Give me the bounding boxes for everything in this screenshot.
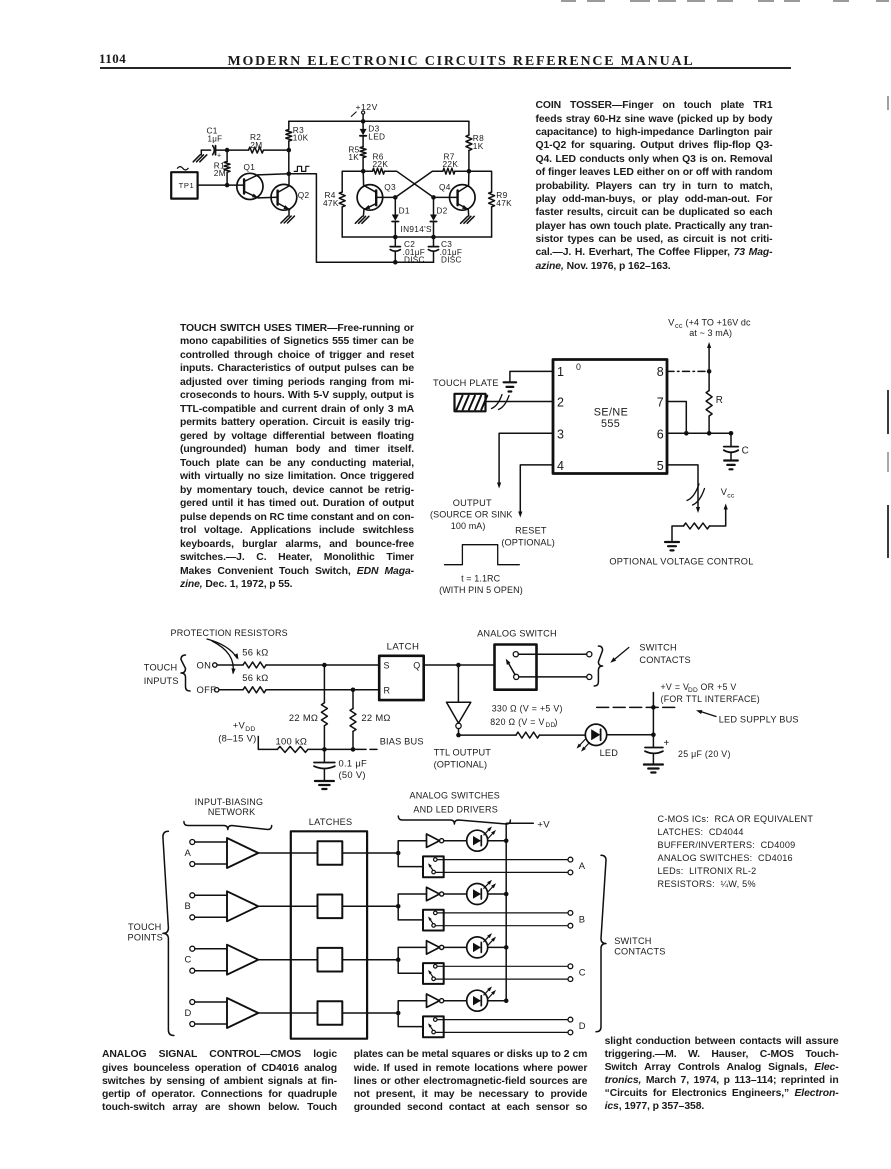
svg-text:B: B (579, 913, 586, 924)
wire to inverter B (398, 894, 426, 906)
wire to inverter A (398, 841, 426, 853)
label t=1.1RC (439, 573, 523, 595)
pin 4 (557, 459, 564, 473)
transistor Q3 (357, 171, 396, 216)
transistor Q4 (439, 171, 475, 216)
label +VDD supply (218, 719, 256, 743)
resistor R2 2M (227, 132, 289, 153)
label LED supply bus (696, 710, 799, 724)
svg-text:ANALOG SWITCH: ANALOG SWITCH (477, 629, 557, 639)
label Vcc supply (668, 316, 751, 338)
wire switch contact bottom D (435, 1030, 572, 1035)
svg-text:C: C (579, 967, 586, 978)
node R2/R3 junction (287, 148, 292, 174)
svg-text:0.1 μF: 0.1 μF (339, 757, 368, 768)
pin 8 (657, 365, 664, 379)
label analog switches and led drivers (410, 790, 501, 814)
svg-text:INPUT-BIASING: INPUT-BIASING (195, 797, 264, 807)
+12V supply terminal (351, 102, 378, 121)
label reset (501, 526, 555, 548)
buffer D (227, 998, 258, 1028)
label +V supply (661, 682, 761, 704)
capacitor 0.1uF (314, 749, 367, 780)
svg-text:56 kΩ: 56 kΩ (242, 672, 268, 683)
ground at pin 1 (504, 382, 516, 391)
resistor R3 10K (286, 121, 309, 150)
svg-text:R: R (384, 685, 391, 695)
svg-text:cc: cc (727, 493, 735, 500)
touch plate TP1 (171, 167, 197, 199)
resistor 56k (ON) (217, 646, 379, 668)
capacitor 25uF (645, 735, 731, 763)
wire LED supply bus (dashed) (597, 705, 676, 710)
touch on/off latch schematic (0, 0, 1, 1)
node C1/R1/R2 junction (225, 148, 230, 153)
wire to analog switch A (398, 853, 423, 867)
wire latch output A (342, 851, 400, 856)
wire LED to +V rail A (488, 838, 509, 843)
coin tosser schematic (0, 0, 1, 1)
svg-text:OUTPUT: OUTPUT (453, 498, 492, 508)
touch input pair D (185, 1000, 228, 1027)
label IN914S (401, 224, 433, 234)
wire pin 7 (667, 402, 689, 436)
resistor R1 2M (214, 150, 230, 185)
resistor R7 22K (443, 151, 469, 174)
svg-text:A: A (579, 860, 586, 871)
svg-text:8: 8 (657, 365, 664, 379)
wire Q3 base (378, 195, 398, 200)
wire buffer to latch C (258, 959, 317, 961)
transistor Q2 (271, 174, 309, 216)
svg-text:SE/NE: SE/NE (594, 407, 628, 419)
svg-text:POINTS: POINTS (128, 933, 163, 943)
svg-text:2M: 2M (250, 140, 262, 150)
node OFF junction (351, 688, 356, 693)
inverter TTL output (447, 665, 471, 735)
resistor 56k (OFF) (219, 672, 379, 693)
brace analog switches (398, 816, 510, 824)
square wave symbol (294, 166, 309, 171)
svg-text:(WITH PIN 5 OPEN): (WITH PIN 5 OPEN) (439, 585, 523, 595)
wire switch contact top A (437, 857, 573, 862)
label touch inputs (144, 663, 179, 686)
svg-text:TOUCH PLATE: TOUCH PLATE (433, 378, 499, 388)
inverter D (427, 994, 444, 1007)
wire to inverter C (398, 947, 426, 959)
wire top supply rail (289, 119, 469, 124)
svg-text:C: C (742, 445, 749, 456)
wire bottom rail (342, 235, 491, 240)
ground at Q3 emitter (355, 216, 369, 223)
svg-text:47K: 47K (323, 198, 339, 208)
555 timer schematic (0, 0, 1, 1)
label optional voltage control (609, 556, 753, 566)
svg-text:7: 7 (657, 396, 664, 410)
touch input pair B (185, 893, 228, 920)
svg-text:DISC: DISC (441, 256, 462, 265)
resistor R9 47K (489, 190, 513, 237)
svg-text:INPUTS: INPUTS (144, 676, 179, 686)
wire switch contact bottom (519, 674, 592, 679)
svg-text:LATCH: LATCH (387, 641, 420, 652)
diode D1 (392, 197, 410, 237)
svg-text:D2: D2 (436, 205, 447, 215)
svg-text:555: 555 (601, 418, 620, 430)
wire to analog switch C (398, 960, 423, 974)
svg-text:+V: +V (537, 819, 550, 830)
wire pin 5 (667, 465, 700, 513)
label TTL output (434, 747, 492, 769)
node TTL junction (456, 733, 461, 738)
svg-text:D: D (579, 1020, 586, 1031)
svg-text:BIAS BUS: BIAS BUS (380, 736, 424, 746)
wire switch contact top D (437, 1017, 573, 1022)
break symbol on pin 5 wire (687, 484, 705, 505)
node ON input terminal (197, 659, 218, 670)
node bias bus junctions (322, 747, 355, 752)
ground at 25uF (644, 765, 663, 773)
svg-text:2: 2 (557, 396, 564, 410)
svg-text:OPTIONAL VOLTAGE CONTROL: OPTIONAL VOLTAGE CONTROL (609, 556, 753, 566)
LED C (467, 933, 496, 958)
svg-text:+V = V: +V = V (661, 682, 690, 692)
svg-text:5: 5 (657, 459, 664, 473)
svg-text:AND LED DRIVERS: AND LED DRIVERS (413, 805, 498, 815)
pin 6 (657, 427, 664, 441)
wire switch contact top (518, 652, 592, 657)
svg-text:ON: ON (197, 659, 212, 670)
ground at Q2 emitter (281, 216, 295, 223)
pin 1 (557, 365, 564, 379)
resistor R8 1K (466, 121, 484, 171)
node Q3 collector junction (361, 169, 366, 174)
svg-text:S: S (384, 661, 390, 671)
svg-text:DISC: DISC (404, 256, 425, 265)
touch input pair A (185, 840, 228, 867)
pin 3 (557, 427, 564, 441)
pin 2 (557, 396, 564, 410)
wire latch output C (342, 957, 400, 962)
node output D (579, 1020, 586, 1031)
node output junction (287, 172, 292, 177)
wire Q1 emitter to Q2 base (258, 196, 277, 199)
resistor R6 22K (363, 151, 388, 174)
svg-text:0: 0 (576, 362, 581, 372)
svg-text:CONTACTS: CONTACTS (639, 655, 690, 665)
latch cell A (318, 841, 343, 865)
svg-text:at ~ 3 mA): at ~ 3 mA) (689, 328, 732, 338)
capacitor C1 1uF (201, 126, 227, 160)
svg-text:A: A (185, 847, 192, 858)
brace switch contacts (right) (596, 855, 606, 1031)
wire buffer to latch A (258, 852, 317, 854)
svg-text:4: 4 (557, 459, 564, 473)
node output B (579, 913, 586, 924)
resistor 330/820 (459, 704, 586, 739)
brace input-biasing network (184, 822, 272, 830)
svg-text:+12V: +12V (356, 102, 378, 112)
svg-text:LED SUPPLY BUS: LED SUPPLY BUS (719, 714, 799, 724)
wire R7 to Q3 base (cross-coupling) (395, 171, 443, 197)
svg-text:2M: 2M (214, 168, 226, 178)
wire pin 6 (667, 431, 733, 436)
svg-text:t = 1.1RC: t = 1.1RC (461, 573, 501, 583)
Vcc arrow (707, 342, 711, 371)
diode D3 LED (360, 121, 386, 146)
resistor R5 1K (348, 144, 366, 171)
wire pin 3 to output (497, 433, 553, 488)
analog switch U3 (495, 645, 537, 690)
svg-text:D: D (185, 1007, 192, 1018)
wire LED to supply junction (607, 733, 656, 738)
label analog switch (477, 629, 557, 639)
analog switch C (423, 963, 444, 984)
svg-text:Q1: Q1 (244, 162, 256, 172)
resistor R (706, 371, 723, 433)
svg-text:+: + (217, 153, 221, 160)
label switch contacts (610, 643, 691, 666)
latch U2 (379, 641, 424, 700)
latch cell D (318, 1001, 343, 1025)
LED A (467, 826, 496, 851)
svg-text:+V: +V (233, 719, 246, 730)
buffer C (227, 945, 258, 975)
brace switch contacts (594, 646, 602, 686)
svg-text:LATCHES: LATCHES (309, 817, 353, 827)
svg-text:3: 3 (557, 427, 564, 441)
svg-text:22K: 22K (373, 159, 389, 169)
transistor Q1 (237, 162, 263, 199)
latch cell C (318, 948, 343, 972)
svg-text:LED: LED (600, 748, 619, 758)
ground at potentiometer (665, 542, 679, 550)
latch cell B (318, 895, 343, 919)
svg-text:(OPTIONAL): (OPTIONAL) (434, 759, 488, 769)
analog switch B (423, 910, 444, 931)
resistor 100k (258, 736, 358, 753)
resistor 22M (OFF side) (350, 690, 391, 750)
svg-text:TP1: TP1 (179, 181, 195, 190)
svg-text:cc: cc (675, 321, 683, 330)
svg-text:R: R (716, 395, 723, 406)
svg-text:TOUCH: TOUCH (128, 922, 162, 932)
svg-text:(OPTIONAL): (OPTIONAL) (501, 538, 555, 548)
svg-text:OR +5 V: OR +5 V (701, 682, 737, 692)
analog switch A (423, 856, 444, 877)
op-amp U1 SE/NE 555 (553, 360, 667, 474)
wire Q4 base (431, 195, 456, 200)
wire TP1 to Q1 base (198, 183, 244, 188)
svg-text:+: + (664, 738, 670, 749)
arrow to resistor 2 (212, 641, 236, 675)
arrow to resistor 1 (207, 639, 239, 660)
wire inverter to LED B (444, 893, 467, 895)
wire inverter to LED D (444, 1000, 467, 1002)
brace touch points (163, 831, 174, 1035)
resistor 22M (ON side) (289, 665, 328, 749)
svg-text:TTL OUTPUT: TTL OUTPUT (434, 747, 492, 757)
wire inverter to LED C (444, 946, 467, 948)
svg-text:(FOR TTL INTERFACE): (FOR TTL INTERFACE) (661, 694, 761, 704)
svg-text:22 MΩ: 22 MΩ (289, 712, 318, 723)
label touch points (128, 922, 163, 943)
buffer B (227, 891, 258, 921)
svg-text:(8–15 V): (8–15 V) (218, 733, 256, 744)
wire latch output B (342, 904, 400, 909)
node output C (579, 967, 586, 978)
svg-text:1K: 1K (348, 152, 359, 162)
wire Q1 collector to output node (258, 174, 289, 175)
svg-text:Q3: Q3 (384, 182, 396, 192)
brace touch inputs (181, 655, 190, 691)
wire to inverter D (398, 1001, 426, 1013)
svg-text:SWITCH: SWITCH (614, 936, 651, 946)
svg-text:D1: D1 (399, 205, 410, 215)
wire R6 to Q4 base (cross-coupling) (385, 171, 434, 197)
svg-text:TOUCH: TOUCH (144, 663, 178, 673)
svg-text:6: 6 (657, 427, 664, 441)
svg-text:100 mA): 100 mA) (451, 521, 486, 531)
latches box (291, 831, 367, 1038)
wire switch contact bottom B (435, 923, 572, 928)
node ON junction (322, 663, 327, 668)
wire latch Q output (424, 663, 495, 668)
svg-text:10K: 10K (293, 133, 309, 143)
wire bias bus (dashed) (358, 736, 424, 749)
wire pin 8 (dash-dot) (667, 369, 711, 374)
svg-text:1μF: 1μF (208, 135, 223, 144)
LED B (467, 880, 496, 905)
label switch contacts (right) (614, 936, 665, 957)
svg-text:(50 V): (50 V) (339, 769, 366, 780)
wire output to bottom rail (289, 174, 434, 262)
svg-text:22K: 22K (443, 159, 459, 169)
svg-text:C: C (185, 954, 192, 965)
svg-text:47K: 47K (496, 198, 512, 208)
ground at C1 (193, 150, 207, 162)
inverter A (427, 834, 444, 847)
wire touch plate to pin 2 (486, 401, 554, 403)
svg-text:ANALOG SWITCHES: ANALOG SWITCHES (410, 790, 501, 800)
wire switch contact bottom C (435, 977, 572, 982)
svg-text:B: B (185, 900, 192, 911)
svg-text:LED: LED (368, 132, 385, 142)
ground at Q4 emitter (461, 216, 475, 223)
wire LED to +V rail B (488, 892, 509, 897)
svg-text:SWITCH: SWITCH (639, 643, 676, 653)
capacitor C2 .01uF DISC (390, 237, 425, 265)
ground at 0.1uF (315, 781, 334, 789)
label output (430, 498, 513, 531)
wire to analog switch B (398, 906, 423, 920)
wire LED to +V rail D (488, 998, 509, 1003)
ground at C (724, 461, 738, 470)
label latches (309, 817, 353, 827)
label touch plate (433, 378, 499, 388)
node OFF input terminal (197, 684, 219, 695)
wire buffer to latch B (258, 905, 317, 907)
svg-text:PROTECTION RESISTORS: PROTECTION RESISTORS (171, 628, 288, 638)
capacitor C3 .01uF DISC (428, 237, 462, 265)
svg-text:1K: 1K (473, 141, 484, 151)
capacitor C (724, 433, 749, 459)
label input-biasing network (195, 797, 264, 817)
wire pin 4 to reset (518, 465, 553, 518)
inverter B (427, 887, 444, 900)
analog switch D (423, 1016, 444, 1037)
potentiometer (optional voltage control) (672, 510, 726, 541)
svg-text:): ) (555, 717, 558, 727)
output pulse waveform (445, 545, 520, 565)
inverter C (427, 941, 444, 954)
resistor R4 47K (323, 190, 345, 237)
label protection resistors (171, 628, 288, 638)
wire inverter to LED A (444, 840, 467, 842)
touch plate electrode (hatched box) (455, 394, 488, 412)
svg-text:(+4 TO +16V dc: (+4 TO +16V dc (686, 317, 752, 327)
pin 5 (657, 459, 664, 473)
svg-text:RESET: RESET (515, 526, 547, 536)
touch input pair C (185, 946, 228, 973)
+V supply rail (506, 819, 550, 1000)
wire pin 1 to ground (510, 371, 553, 381)
svg-text:CONTACTS: CONTACTS (614, 947, 665, 957)
svg-text:330 Ω (V = +5 V): 330 Ω (V = +5 V) (492, 704, 563, 714)
Vcc arrow at potentiometer (721, 487, 735, 509)
svg-text:100 kΩ: 100 kΩ (276, 736, 308, 747)
wire latch output D (342, 1011, 400, 1016)
svg-text:(SOURCE OR SINK: (SOURCE OR SINK (430, 509, 513, 519)
svg-text:1: 1 (557, 365, 564, 379)
wire junction to bus (652, 693, 654, 735)
svg-text:NETWORK: NETWORK (208, 807, 255, 817)
pin 7 (657, 396, 664, 410)
svg-text:25 μF (20 V): 25 μF (20 V) (678, 749, 731, 759)
diode D2 (430, 197, 448, 237)
wire right rail (469, 171, 492, 192)
wire LED to +V rail C (488, 945, 509, 950)
svg-text:OFF: OFF (197, 684, 217, 695)
svg-text:Q: Q (413, 661, 420, 671)
wire switch contact bottom A (435, 870, 572, 875)
wire left rail (342, 171, 363, 192)
wire to analog switch D (398, 1013, 423, 1027)
svg-text:Q4: Q4 (439, 182, 451, 192)
svg-text:Q2: Q2 (298, 190, 310, 200)
wire switch contact top B (437, 911, 573, 916)
LED indicator (577, 724, 619, 758)
wire switch contact top C (437, 964, 573, 969)
node output A (579, 860, 586, 871)
buffer A (227, 838, 258, 868)
quad touch switch array schematic (0, 0, 1, 1)
node Q4 collector junction (467, 169, 472, 174)
svg-text:820 Ω (V = V: 820 Ω (V = V (490, 717, 544, 727)
svg-text:56 kΩ: 56 kΩ (242, 646, 268, 657)
body-capacitance break symbol (492, 395, 510, 410)
wire buffer to latch D (258, 1012, 317, 1014)
svg-text:IN914'S: IN914'S (401, 224, 433, 234)
svg-text:22 MΩ: 22 MΩ (361, 712, 390, 723)
LED D (467, 986, 496, 1011)
